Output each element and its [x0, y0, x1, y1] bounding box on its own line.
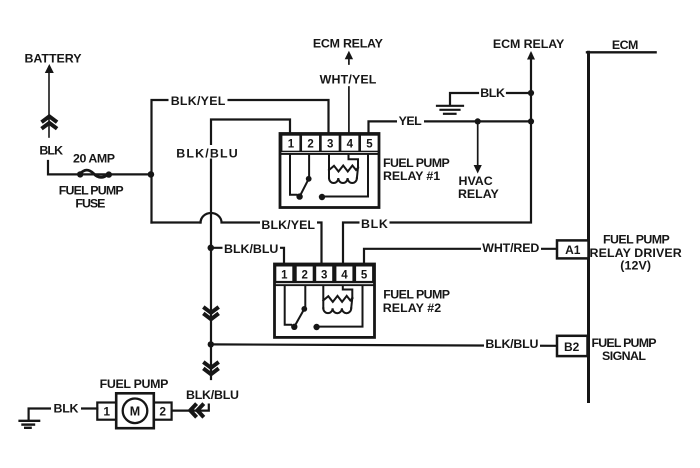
- svg-text:RELAY #2: RELAY #2: [383, 301, 442, 315]
- svg-text:20 AMP: 20 AMP: [73, 151, 115, 165]
- svg-text:WHT/RED: WHT/RED: [482, 241, 539, 255]
- svg-text:3: 3: [321, 269, 327, 281]
- svg-text:1: 1: [288, 138, 295, 150]
- svg-text:FUEL PUMP: FUEL PUMP: [383, 156, 450, 170]
- svg-text:BLK/BLU: BLK/BLU: [186, 388, 239, 402]
- svg-text:ECM: ECM: [612, 38, 638, 52]
- svg-text:1: 1: [281, 269, 288, 281]
- svg-text:BLK: BLK: [361, 217, 388, 231]
- svg-text:4: 4: [347, 138, 354, 150]
- svg-text:M: M: [130, 404, 140, 418]
- svg-text:FUEL PUMP: FUEL PUMP: [100, 377, 169, 391]
- svg-text:BLK: BLK: [54, 402, 79, 416]
- svg-text:1: 1: [103, 405, 110, 419]
- svg-text:FUEL PUMP: FUEL PUMP: [383, 288, 450, 302]
- svg-text:2: 2: [159, 405, 166, 419]
- svg-text:RELAY #1: RELAY #1: [383, 169, 440, 183]
- svg-text:FUEL PUMP: FUEL PUMP: [603, 233, 670, 247]
- svg-text:BLK/BLU: BLK/BLU: [224, 242, 278, 256]
- svg-text:BLK/BLU: BLK/BLU: [176, 147, 238, 161]
- svg-text:WHT/YEL: WHT/YEL: [320, 73, 377, 87]
- svg-text:BLK/YEL: BLK/YEL: [261, 218, 315, 232]
- svg-text:FUSE: FUSE: [75, 196, 105, 210]
- svg-text:SIGNAL: SIGNAL: [602, 349, 646, 363]
- svg-text:BLK/BLU: BLK/BLU: [485, 337, 538, 351]
- svg-text:BATTERY: BATTERY: [25, 51, 83, 65]
- svg-text:YEL: YEL: [399, 114, 423, 128]
- svg-text:5: 5: [366, 138, 373, 150]
- svg-text:FUEL PUMP: FUEL PUMP: [59, 183, 124, 197]
- svg-text:BLK: BLK: [39, 144, 63, 158]
- svg-text:ECM RELAY: ECM RELAY: [493, 37, 565, 51]
- svg-text:HVAC: HVAC: [459, 174, 493, 188]
- svg-text:FUEL PUMP: FUEL PUMP: [592, 336, 657, 350]
- svg-text:2: 2: [301, 269, 307, 281]
- svg-text:5: 5: [361, 269, 368, 281]
- svg-text:2: 2: [307, 138, 313, 150]
- svg-text:BLK/YEL: BLK/YEL: [171, 94, 226, 108]
- svg-text:4: 4: [341, 269, 348, 281]
- svg-text:3: 3: [327, 138, 333, 150]
- svg-text:RELAY: RELAY: [458, 187, 500, 201]
- svg-text:ECM RELAY: ECM RELAY: [313, 37, 384, 51]
- svg-text:B2: B2: [564, 340, 580, 354]
- svg-text:A1: A1: [565, 243, 581, 257]
- svg-text:BLK: BLK: [480, 86, 505, 100]
- svg-text:(12V): (12V): [620, 259, 651, 273]
